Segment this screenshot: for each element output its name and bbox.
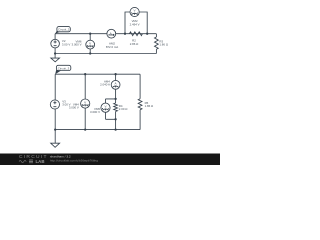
svg-text:2.00 Ω: 2.00 Ω — [119, 107, 128, 111]
svg-text:Circuit_3: Circuit_3 — [58, 67, 70, 71]
svg-text:3.00 V: 3.00 V — [62, 42, 70, 46]
svg-text:872.0 mA: 872.0 mA — [106, 45, 118, 49]
svg-text:3.000 V: 3.000 V — [69, 106, 79, 110]
svg-text:2.494 V: 2.494 V — [130, 22, 140, 26]
svg-text:1.86 Ω: 1.86 Ω — [159, 43, 168, 47]
svg-text:Circuit_2: Circuit_2 — [58, 27, 70, 31]
svg-text:2.86 Ω: 2.86 Ω — [130, 42, 139, 46]
svg-text:http://circuitlab.com/c/b36wpb: http://circuitlab.com/c/b36wpb76bhg — [50, 158, 98, 162]
svg-text:2.040 A: 2.040 A — [100, 83, 110, 87]
svg-text:LAB: LAB — [36, 159, 45, 164]
svg-text:3.000 V: 3.000 V — [90, 110, 100, 114]
svg-text:3.000 V: 3.000 V — [72, 43, 82, 47]
svg-text:1.86 Ω: 1.86 Ω — [145, 104, 154, 108]
